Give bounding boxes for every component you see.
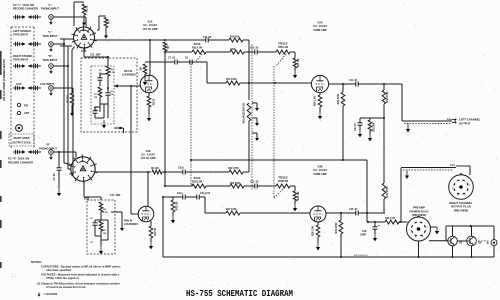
wire (257, 51, 276, 53)
svg-text:S1 Shown in FM-AM position.: S1 Shown in FM-AM position. Arrow indica… (37, 282, 120, 286)
wire coax riser (400, 168, 402, 222)
wire corner x367 (366, 160, 368, 222)
svg-text:(PIN VIEW): (PIN VIEW) (454, 208, 469, 212)
svg-text:1/2 - 12AX7: 1/2 - 12AX7 (313, 24, 327, 28)
wire phono L to S1A (53, 16, 86, 18)
svg-text:C3(+): C3(+) (178, 167, 184, 170)
potentiometer R28 balance (247, 103, 251, 121)
svg-text:AUX INPUT: AUX INPUT (40, 82, 54, 86)
resistor R34 470K (340, 213, 342, 220)
ground V1B cathode (150, 238, 152, 242)
connector J2 tape L (49, 42, 54, 47)
wire V1A plate (149, 40, 151, 75)
svg-text:R30 270K: R30 270K (386, 91, 389, 102)
resistor R28B 1.5K cathode (317, 222, 319, 225)
svg-text:LOUDNESS: LOUDNESS (124, 223, 138, 226)
svg-text:C7 .05: C7 .05 (168, 57, 176, 60)
resistor R29 470K (342, 84, 344, 92)
resistor R9 10K (152, 170, 162, 174)
treble wiper dashed (276, 54, 286, 66)
capacitor C5 electrolytic (196, 195, 198, 200)
wire (192, 61, 207, 63)
capacitor C17 30 (359, 118, 361, 123)
resistor R31 56K (369, 118, 371, 120)
wire (290, 51, 295, 53)
node grid junction (130, 85, 132, 87)
svg-text:FM: FM (24, 104, 28, 108)
svg-text:of control as viewed from fron: of control as viewed from front. (46, 285, 86, 289)
svg-text:TAPE INPUT: TAPE INPUT (42, 58, 58, 62)
ground C2 (58, 188, 60, 193)
wire y213 V2B grid (205, 212, 226, 214)
capacitor C5A (106, 92, 111, 94)
wire (208, 39, 229, 41)
chassis symbol note (38, 293, 40, 295)
svg-text:R1 22: R1 22 (86, 5, 89, 12)
svg-text:PHONO INPUT: PHONO INPUT (41, 7, 59, 11)
resistor R1 22 (73, 2, 75, 26)
svg-text:TO “L” JACK ON: TO “L” JACK ON (13, 3, 34, 7)
triode V1B (138, 206, 154, 222)
wire V2A plate out (329, 83, 356, 85)
wire tape L down (53, 43, 64, 45)
svg-text:2.7K: 2.7K (103, 212, 108, 214)
capacitor C3 electrolytic (182, 170, 184, 175)
svg-text:= CHASSIS: = CHASSIS (43, 292, 57, 296)
svg-text:otherwise specified.: otherwise specified. (46, 268, 72, 272)
wire y186 treble bus B (165, 185, 192, 187)
resistor R6B (99, 202, 103, 212)
wire (399, 221, 408, 223)
svg-text:EEPS-60341-O: EEPS-60341-O (354, 255, 368, 257)
tap arrow S1C a (252, 102, 257, 104)
wire B+ return y160 (191, 159, 367, 161)
svg-text:CAPACITORS - Decimal values in: CAPACITORS - Decimal values in MF, all o… (41, 265, 121, 269)
potentiometer R21A bass (192, 50, 206, 54)
svg-text:1M: 1M (94, 97, 97, 99)
wire y52 treble bus (165, 51, 192, 53)
capacitor C11 .05 (205, 38, 207, 43)
wire dashed to lamp (478, 240, 489, 242)
svg-text:VOLTAGES - Measured from point: VOLTAGES - Measured from point indicated… (41, 273, 120, 277)
resistor R17 100K (226, 211, 240, 215)
svg-text:1M: 1M (140, 67, 143, 70)
octal socket preamp power plug (407, 217, 431, 241)
wire (257, 185, 276, 187)
capacitor C18 10MF electrolytic (374, 222, 376, 227)
loudness network B dashed box (87, 200, 115, 254)
wire (199, 196, 205, 198)
wire S1A bottom to loudness (83, 48, 85, 57)
svg-text:R10 470K: R10 470K (228, 167, 239, 170)
triode V2A (311, 75, 328, 92)
svg-text:C16 .01: C16 .01 (349, 208, 358, 211)
svg-text:“L”: “L” (48, 3, 53, 7)
svg-text:+: + (378, 224, 380, 228)
svg-text:C5(+)100: C5(+)100 (200, 192, 211, 195)
resistor R6A (107, 57, 109, 66)
svg-text:C4(+): C4(+) (177, 192, 183, 195)
wire (185, 171, 229, 173)
resistor R19 45K (229, 38, 243, 42)
node x384 y118 (383, 117, 385, 119)
svg-text:C11 .05: C11 .05 (203, 36, 212, 39)
dashed enclosure aux strip (10, 27, 12, 148)
jack pair phono R (13, 151, 25, 153)
potentiometer R25B treble (276, 184, 290, 188)
ground V1A cathode (148, 107, 150, 114)
transistor X2 (467, 236, 477, 246)
wire tape R down (53, 65, 68, 67)
resistor R7A (98, 87, 102, 97)
svg-text:R19 45K: R19 45K (230, 36, 240, 39)
ground R27B (294, 201, 296, 204)
wire y118 (360, 117, 384, 119)
tap arrow S1C c (252, 132, 257, 134)
capacitor C9 .02 (189, 60, 191, 65)
wire (358, 83, 402, 85)
capacitor C16 .01 (355, 211, 357, 216)
wire (162, 171, 183, 173)
wire V2B plate out (326, 212, 356, 214)
coax right channel (401, 167, 456, 169)
resistor R30 270K (383, 84, 385, 90)
svg-text:10MF: 10MF (360, 234, 367, 237)
wire loudness B internal (95, 235, 101, 237)
svg-text:180K: 180K (230, 49, 236, 51)
wire (206, 51, 230, 53)
ground R27 (294, 68, 296, 71)
svg-text:R32 470K: R32 470K (386, 186, 389, 197)
svg-text:RIGHT SPKR: RIGHT SPKR (14, 136, 30, 140)
wire (290, 185, 295, 187)
ground C18 (374, 234, 376, 238)
ground loudness B (100, 246, 102, 251)
bass wiper dashed B (191, 184, 197, 188)
capacitor C2 .05 (58, 152, 60, 168)
octal socket right channel output plug (449, 175, 474, 200)
svg-text:C13 .05: C13 .05 (250, 47, 259, 50)
svg-text:1ST AF AMP: 1ST AF AMP (142, 27, 157, 31)
svg-text:R23 100K: R23 100K (230, 183, 241, 185)
svg-text:ON AUX STRIP (CABINET BACK): ON AUX STRIP (CABINET BACK) (2, 59, 6, 101)
wire (177, 61, 190, 63)
capacitor C13 .05 (254, 50, 256, 55)
capacitor C14 .01 (355, 82, 357, 87)
wire y62 cap bus (145, 61, 175, 63)
FM antenna terminals (17, 103, 20, 106)
svg-text:AUX: AUX (16, 82, 22, 86)
connector J5 phono R (49, 150, 54, 155)
wire (244, 185, 255, 187)
resistor R27B 1M (293, 191, 297, 201)
wire transistor top rail (446, 225, 494, 227)
triode V1A (140, 75, 158, 93)
wire phono R to S1B (53, 151, 76, 153)
svg-text:1ST AF AMP: 1ST AF AMP (140, 156, 155, 160)
ground R20 (144, 74, 146, 78)
pilot lamp D (493, 226, 495, 240)
svg-text:C2 .05: C2 .05 (53, 173, 56, 181)
svg-text:RECORD CHANGER: RECORD CHANGER (13, 7, 38, 11)
resistor R22 180K (230, 50, 244, 54)
ground preamp plug (431, 226, 438, 228)
svg-text:R21A 2M: R21A 2M (192, 46, 202, 49)
ground C17 (359, 130, 361, 134)
svg-text:TONE AMP: TONE AMP (313, 172, 327, 176)
capacitor C15 .05 (254, 184, 256, 189)
resistor R20 1M (143, 64, 147, 74)
svg-text:P901: P901 (447, 119, 453, 121)
svg-text:R17 100K: R17 100K (226, 208, 237, 211)
wire S1B contact stubs (64, 163, 71, 165)
svg-text:R27 1M: R27 1M (297, 192, 300, 200)
svg-text:R28 1.5K: R28 1.5K (312, 226, 315, 236)
svg-text:BALANCE R28 500: BALANCE R28 500 (243, 102, 246, 123)
wire X2 emitter (471, 246, 473, 257)
svg-text:TONE AMP: TONE AMP (313, 28, 327, 32)
svg-text:ANT: ANT (24, 111, 30, 115)
ground loudness A (103, 120, 105, 125)
wire (244, 51, 255, 53)
ground R31 (369, 134, 371, 138)
potentiometer R21B bass (192, 184, 206, 188)
wire y222 to preamp plug (367, 221, 385, 223)
right speaker output jack (16, 125, 23, 132)
svg-text:TAPE INPUT: TAPE INPUT (13, 58, 29, 62)
svg-text:R27 1M: R27 1M (297, 59, 300, 67)
svg-text:LOUDNESS: LOUDNESS (122, 74, 136, 77)
jack pair tape L (13, 43, 25, 45)
jack pair phono L (13, 16, 25, 18)
svg-text:“R”: “R” (48, 54, 53, 58)
svg-text:R29 470K: R29 470K (337, 93, 340, 104)
svg-text:V2A: V2A (317, 21, 322, 25)
svg-text:1/2 - 12AX7: 1/2 - 12AX7 (143, 23, 157, 27)
svg-text:V2B: V2B (317, 165, 322, 169)
resistor R24 100K (226, 81, 240, 85)
wire preamp plug bottom (418, 241, 420, 257)
wire loudness internal (100, 73, 108, 75)
svg-text:2.7K: 2.7K (110, 72, 115, 74)
svg-text:C17 30: C17 30 (355, 123, 357, 131)
scan noise speckle (318, 8, 321, 11)
loudness A lower tap arrow (114, 127, 123, 129)
capacitor C9A inside loudness A (93, 110, 98, 112)
svg-text:VTVM, ±10%. No signal in.: VTVM, ±10%. No signal in. (46, 276, 80, 280)
svg-text:R5A IN: R5A IN (124, 70, 132, 73)
wire (206, 185, 230, 187)
svg-text:R12 56: R12 56 (154, 227, 157, 235)
node V1A plate junction (149, 39, 151, 41)
capacitor C7 .05 (174, 60, 176, 65)
resistor R7 1M (163, 42, 167, 51)
node R7 junction (164, 39, 166, 41)
wire to V1B grid (130, 86, 132, 214)
potentiometer R5A wiper (114, 85, 126, 87)
transistor X1 (448, 236, 458, 246)
ground V2A cathode (319, 107, 321, 112)
wire S1A left stubs (60, 38, 74, 40)
capacitor C6B (93, 222, 98, 224)
svg-text:R26 1.5K: R26 1.5K (314, 96, 317, 106)
resistor R27 1M (293, 58, 297, 68)
ground coax shield L (407, 124, 409, 129)
svg-text:C18: C18 (362, 230, 367, 233)
svg-text:TAPE INPUT: TAPE INPUT (13, 33, 29, 37)
wire V1A grid (126, 85, 141, 87)
wire (243, 171, 249, 173)
treble wiper dashed B (274, 188, 284, 198)
triode V2B (310, 206, 326, 222)
connector J4 aux (49, 86, 54, 91)
svg-text:PHONO INPUT: PHONO INPUT (39, 146, 57, 150)
svg-text:P902: P902 (450, 165, 456, 167)
svg-text:HS-755 SCHEMATIC DIAGRAM: HS-755 SCHEMATIC DIAGRAM (186, 288, 293, 299)
capacitor C6A (98, 77, 103, 79)
ground V2B cathode (317, 237, 319, 242)
coax left channel (402, 120, 452, 122)
wire X1 emitter (452, 246, 454, 257)
svg-text:R2 1M: R2 1M (67, 95, 70, 102)
rotary switch S1B (71, 157, 95, 181)
resistor R33 4.7K (385, 220, 399, 224)
wire bottom rail (163, 256, 494, 258)
ground coax shield R (406, 171, 408, 176)
wire bus x165 (164, 51, 166, 186)
loudness network A dashed box (81, 58, 137, 132)
svg-text:RECORD CHANGER: RECORD CHANGER (8, 160, 33, 164)
svg-text:R5B IN: R5B IN (124, 220, 132, 223)
svg-text:R25B 2M: R25B 2M (278, 180, 288, 183)
svg-text:V1A: V1A (147, 20, 152, 24)
potentiometer R5B wiper (111, 211, 122, 213)
svg-text:C14 .01: C14 .01 (349, 79, 358, 82)
wire to balance (243, 39, 249, 41)
svg-text:“R”: “R” (46, 143, 51, 147)
svg-text:C12 .1MF: C12 .1MF (110, 194, 121, 197)
svg-text:C12 .1MF: C12 .1MF (90, 53, 101, 56)
resistor R26 1.5K cathode (319, 93, 321, 95)
svg-text:R21B 2M: R21B 2M (192, 180, 202, 183)
wire base link (457, 240, 466, 242)
svg-text:OUTPUT JACK: OUTPUT JACK (12, 141, 31, 145)
svg-text:D: D (487, 242, 489, 245)
wire aux down (53, 87, 73, 89)
svg-text:R9 10K: R9 10K (151, 168, 159, 170)
wire V1B plate (147, 172, 149, 207)
svg-text:R34 470K: R34 470K (335, 222, 338, 233)
resistor R8 56 cathode (148, 93, 150, 96)
svg-text:V1B: V1B (145, 149, 150, 153)
resistor R10 470K (229, 170, 243, 174)
label RIGHT SPKR OUTPUT JACK (9, 134, 34, 146)
wire y197 cap bus B (163, 196, 183, 198)
wire (358, 212, 385, 214)
connector J3 tape R (49, 64, 54, 69)
svg-text:OUTPUT: OUTPUT (459, 122, 471, 126)
ground R22B (172, 212, 174, 216)
wire X1 collector (452, 226, 454, 236)
svg-text:TO “R” JACK ON: TO “R” JACK ON (8, 157, 29, 161)
svg-text:1M: 1M (103, 233, 106, 235)
svg-text:R31 56K: R31 56K (374, 122, 376, 131)
resistor R23 100K (230, 184, 244, 188)
wire S1B to loudness B (83, 182, 85, 198)
rotary switch S1A (74, 27, 95, 48)
resistor R3 100K (97, 29, 99, 31)
wire x163 to bottom rail (162, 197, 164, 257)
svg-text:TAPE INPUT: TAPE INPUT (42, 34, 58, 38)
wire (185, 196, 197, 198)
svg-text:NOTES:: NOTES: (31, 260, 42, 264)
svg-text:R24 100K: R24 100K (226, 78, 237, 81)
wire transistor base feed (429, 240, 448, 242)
bass wiper dashed (196, 54, 202, 61)
wire y83 V2A grid (207, 82, 226, 84)
jack pair aux (13, 87, 25, 89)
svg-text:R8 56: R8 56 (153, 98, 156, 105)
tap arrow S1C b (252, 117, 257, 119)
resistor R32 470K (383, 118, 385, 183)
svg-text:1/2 - 12AX7: 1/2 - 12AX7 (313, 168, 327, 172)
resistor R2 1M (72, 47, 75, 51)
wire (240, 212, 310, 214)
wire S1A wiper output (95, 39, 206, 41)
resistor R12 56 cathode (150, 221, 152, 226)
svg-text:RIGHT STEREO: RIGHT STEREO (13, 54, 32, 58)
svg-text:C15 .05: C15 .05 (250, 181, 259, 184)
svg-text:“L”: “L” (48, 30, 53, 34)
scan edge artifacts (0, 51, 2, 75)
resistor R7B (99, 221, 103, 231)
wire X2 collector (471, 226, 473, 236)
resistor R22B 1M (172, 197, 174, 200)
jack pair tape R (13, 65, 25, 67)
balance dashed gang line (251, 44, 253, 190)
svg-text:R25A 2M: R25A 2M (278, 46, 288, 49)
svg-text:R33 4.7K: R33 4.7K (385, 217, 395, 220)
svg-text:1/2 - 12AX7: 1/2 - 12AX7 (141, 153, 155, 157)
wire (240, 82, 311, 84)
connector J1 phono L (49, 15, 54, 20)
node loudness A top (107, 56, 109, 58)
potentiometer R25A treble (276, 50, 290, 54)
svg-text:LEFT STEREO: LEFT STEREO (13, 29, 31, 33)
svg-text:R22 1M: R22 1M (176, 202, 179, 210)
wire S1B wiper output (95, 171, 151, 173)
capacitor C4 electrolytic (182, 195, 184, 200)
